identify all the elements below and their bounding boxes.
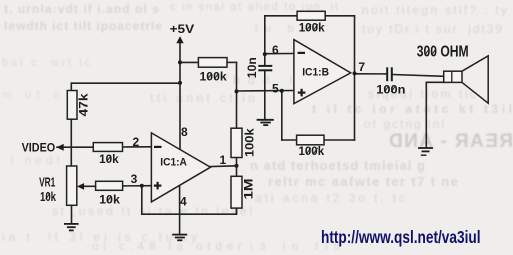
svg-text:IC1:A: IC1:A xyxy=(160,156,187,168)
svg-text:1: 1 xyxy=(220,153,227,167)
svg-text:VR1: VR1 xyxy=(39,174,55,189)
svg-text:6: 6 xyxy=(272,43,279,57)
svg-text:47k: 47k xyxy=(77,93,91,116)
svg-text:300 OHM: 300 OHM xyxy=(417,44,469,61)
svg-text:100n: 100n xyxy=(376,82,405,96)
svg-text:100k: 100k xyxy=(299,144,325,158)
svg-text:10n: 10n xyxy=(245,57,259,78)
svg-text:100k: 100k xyxy=(200,70,228,84)
svg-text:toy tDr.i t sur. jdt39: toy tDr.i t sur. jdt39 xyxy=(362,22,502,36)
svg-text:1M: 1M xyxy=(242,178,256,199)
svg-text:REAR - AND: REAR - AND xyxy=(387,131,513,152)
svg-text:10k: 10k xyxy=(99,193,120,207)
svg-text:n atd terhoetsd tmleial g: n atd terhoetsd tmleial g xyxy=(250,158,425,173)
svg-text:+5V: +5V xyxy=(170,22,195,36)
svg-text:lewdth ict tilt ipoacetrle: lewdth ict tilt ipoacetrle xyxy=(4,19,162,33)
svg-text:2: 2 xyxy=(133,135,140,149)
svg-text:5: 5 xyxy=(272,82,279,96)
svg-text:st ,used lt si ta e ln level: st ,used lt si ta e ln level xyxy=(52,204,252,218)
svg-text:t, urnla:vdt if i.and ol s: t, urnla:vdt if i.and ol s xyxy=(4,2,159,16)
svg-text:3: 3 xyxy=(131,172,138,186)
svg-text:4: 4 xyxy=(180,194,187,208)
svg-text:100k: 100k xyxy=(299,21,325,35)
svg-text:7: 7 xyxy=(358,60,365,74)
svg-text:IC1:B: IC1:B xyxy=(302,67,329,79)
svg-text:100k: 100k xyxy=(242,128,256,157)
svg-text:VIDEO: VIDEO xyxy=(22,141,56,155)
svg-text:8: 8 xyxy=(181,125,188,139)
svg-text:http://www.qsl.net/va3iul: http://www.qsl.net/va3iul xyxy=(321,227,481,247)
